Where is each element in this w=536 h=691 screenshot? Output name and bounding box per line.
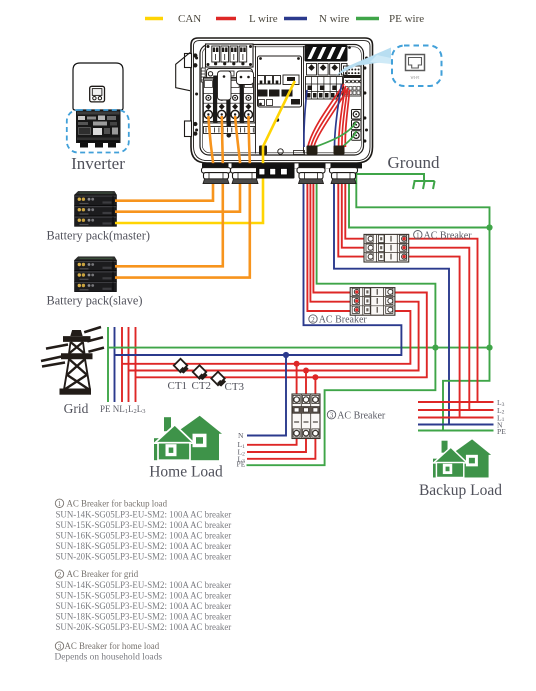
wifi beam: [336, 48, 391, 76]
svg-text:AC Breaker: AC Breaker: [319, 315, 368, 326]
panel screws right: [305, 46, 366, 142]
svg-text:CAN: CAN: [178, 13, 201, 25]
svg-text:CT1: CT1: [168, 380, 188, 392]
svg-text:AC Breaker for grid: AC Breaker for grid: [67, 569, 139, 579]
breaker1 input red 1: [338, 166, 364, 257]
terminal rail: [204, 127, 256, 134]
legend N wire: [284, 13, 349, 25]
svg-text:Home Load: Home Load: [149, 464, 223, 481]
left wall hatch rail: [201, 68, 205, 82]
backup bus labels: [497, 398, 506, 436]
cable gland grid: [297, 168, 325, 184]
battery orange wire 3 (master -): [115, 116, 240, 212]
svg-text:3: 3: [58, 642, 62, 651]
N wire grid to inverter: [115, 166, 402, 355]
CT1: [174, 359, 189, 374]
grid bus verticals PE N L1 L2 L3: [108, 327, 136, 402]
main inverter outer case: [191, 38, 373, 163]
svg-text:L wire: L wire: [249, 13, 278, 25]
note section 1: [55, 498, 231, 561]
svg-text:SUN-18K-SG05LP3-EU-SM2: 100A A: SUN-18K-SG05LP3-EU-SM2: 100A AC breaker: [56, 612, 232, 622]
breaker2 input red 3: [313, 166, 350, 293]
compartment dividers: [256, 46, 304, 154]
connector block right: [344, 66, 362, 96]
breaker3 output L1: [247, 433, 297, 445]
breaker3 tap L2: [305, 371, 307, 400]
svg-text:SUN-16K-SG05LP3-EU-SM2: 100A A: SUN-16K-SG05LP3-EU-SM2: 100A AC breaker: [56, 601, 232, 611]
bus bracket: [207, 69, 253, 84]
grid tower: [41, 327, 104, 394]
svg-text:Battery pack(master): Battery pack(master): [47, 229, 150, 243]
svg-text:AC Breaker: AC Breaker: [337, 410, 386, 421]
legend L wire: [216, 13, 278, 25]
svg-text:SUN-15K-SG05LP3-EU-SM2: 100A A: SUN-15K-SG05LP3-EU-SM2: 100A AC breaker: [56, 520, 232, 530]
breaker2 input red 1: [307, 166, 350, 311]
main inverter wall flap: [176, 53, 190, 91]
RJ45 jack icon: [406, 55, 425, 71]
svg-text:3: 3: [330, 411, 334, 420]
AC breaker 3: [292, 394, 320, 439]
label AC breaker 1: [414, 230, 473, 241]
backup PE from gland: [349, 166, 490, 228]
backup N wire: [334, 166, 449, 425]
inverter icon terminal section: [76, 110, 121, 148]
svg-text:Backup Load: Backup Load: [419, 482, 502, 499]
CT2: [193, 365, 208, 380]
label AC breaker 3: [327, 410, 386, 421]
svg-text:CT2: CT2: [192, 380, 212, 392]
gland plate: [202, 163, 362, 168]
label AC breaker 2: [309, 315, 368, 326]
CT labels: [168, 380, 245, 393]
L1 wire grid line via breaker2: [122, 311, 410, 364]
svg-text:CT3: CT3: [225, 381, 245, 393]
svg-text:Battery pack(slave): Battery pack(slave): [47, 294, 143, 308]
svg-text:AC Breaker: AC Breaker: [424, 230, 473, 241]
L2 wire grid line via breaker2: [129, 302, 419, 371]
gland stubs: [259, 146, 345, 155]
CAN yellow wire inverter to battery: [115, 81, 295, 223]
RJ45 ports row: [258, 75, 300, 85]
main PE earth wire: [356, 165, 489, 431]
note section 3: [55, 641, 163, 663]
heatsink panel: [305, 45, 348, 62]
L3 wire grid line via breaker2: [136, 293, 427, 378]
grid PE horizontal: [108, 347, 490, 349]
svg-text:N: N: [238, 431, 244, 440]
breaker3 tap L1: [296, 364, 298, 399]
breaker3 output L3: [247, 433, 315, 459]
svg-text:1: 1: [58, 499, 62, 508]
main inverter left mounting tabs: [185, 54, 197, 137]
home load labels: [237, 431, 246, 469]
wifi dongle callout box: [392, 46, 442, 87]
misc screws center: [276, 118, 305, 154]
svg-text:2: 2: [58, 570, 62, 579]
breaker1 output L2: [409, 248, 470, 410]
comm board: [258, 56, 302, 107]
bus bracket tabs: [218, 71, 254, 100]
legend CAN: [145, 13, 201, 25]
legend PE wire: [356, 13, 424, 25]
battery orange wire 1 (master +): [115, 116, 213, 201]
battery orange wire 2 (slave +): [115, 116, 223, 266]
breaker2 input red 2: [310, 166, 350, 302]
battery pack slave: [75, 257, 117, 292]
svg-text:N wire: N wire: [319, 13, 349, 25]
ground symbol: [356, 174, 434, 189]
inverter icon body: [73, 63, 123, 110]
backup load house: [433, 439, 491, 477]
breaker3 output L2: [247, 433, 306, 452]
battery pack master: [75, 191, 117, 226]
cable gland battery 2: [231, 168, 260, 184]
svg-text:PE NL1L2L3: PE NL1L2L3: [100, 404, 146, 415]
backup bus lines: [418, 402, 494, 431]
svg-text:PE wire: PE wire: [389, 13, 424, 25]
center gland block: [256, 166, 295, 179]
svg-text:Ground: Ground: [388, 153, 440, 172]
home N branch: [247, 355, 286, 436]
ground terminal column: [352, 110, 362, 141]
svg-text:SUN-20K-SG05LP3-EU-SM2: 100A A: SUN-20K-SG05LP3-EU-SM2: 100A AC breaker: [56, 551, 232, 561]
AC breaker 2: [350, 288, 395, 316]
breaker3 tap L3: [314, 377, 316, 399]
battery terminal columns: [203, 76, 255, 138]
battery switch block: [206, 44, 254, 67]
svg-text:SUN-14K-SG05LP3-EU-SM2: 100A A: SUN-14K-SG05LP3-EU-SM2: 100A AC breaker: [56, 509, 232, 519]
svg-text:SUN-14K-SG05LP3-EU-SM2: 100A A: SUN-14K-SG05LP3-EU-SM2: 100A AC breaker: [56, 580, 232, 590]
CT3: [211, 372, 226, 387]
svg-text:Inverter: Inverter: [71, 154, 125, 173]
breaker1 output L3: [409, 239, 478, 402]
svg-text:AC Breaker for backup load: AC Breaker for backup load: [67, 498, 168, 508]
svg-text:AC Breaker for home load: AC Breaker for home load: [65, 641, 160, 651]
breaker1 output L1: [409, 257, 460, 418]
relay row center: [257, 90, 300, 106]
cable gland backup: [330, 168, 358, 184]
svg-text:SUN-16K-SG05LP3-EU-SM2: 100A A: SUN-16K-SG05LP3-EU-SM2: 100A AC breaker: [56, 530, 232, 540]
svg-text:Grid: Grid: [64, 401, 89, 416]
PE wire inverter grid-side: [247, 166, 436, 465]
battery orange wire 4 (slave -): [115, 116, 250, 278]
svg-text:Depends on household loads: Depends on household loads: [55, 653, 163, 663]
svg-text:PE: PE: [497, 427, 506, 436]
inverter icon dashed callout: [67, 110, 129, 153]
interior wires: [304, 84, 357, 149]
AC terminal grid: [306, 77, 343, 100]
breaker1 input red 3: [345, 166, 364, 239]
svg-text:SUN-15K-SG05LP3-EU-SM2: 100A A: SUN-15K-SG05LP3-EU-SM2: 100A AC breaker: [56, 591, 232, 601]
cable gland battery 1: [202, 168, 231, 184]
panel edge screws: [195, 57, 368, 132]
breaker1 input red 2: [342, 166, 364, 248]
svg-text:SUN-18K-SG05LP3-EU-SM2: 100A A: SUN-18K-SG05LP3-EU-SM2: 100A AC breaker: [56, 541, 232, 551]
junction dots: [283, 224, 493, 380]
note section 2: [55, 569, 231, 632]
AC breaker 1: [364, 234, 409, 262]
svg-text:1: 1: [416, 231, 420, 240]
svg-text:2: 2: [311, 315, 315, 324]
main inverter inner panel: [200, 45, 364, 156]
home load house: [154, 416, 222, 461]
svg-text:PE: PE: [237, 460, 246, 469]
relay diamonds row: [307, 64, 348, 76]
svg-text:SUN-20K-SG05LP3-EU-SM2: 100A A: SUN-20K-SG05LP3-EU-SM2: 100A AC breaker: [56, 622, 232, 632]
svg-text:WI-FI: WI-FI: [411, 76, 421, 80]
